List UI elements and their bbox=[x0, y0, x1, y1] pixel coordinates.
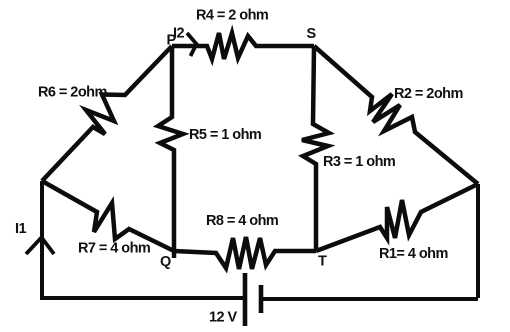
svg-text:I1: I1 bbox=[15, 221, 26, 237]
svg-text:T: T bbox=[318, 254, 327, 270]
svg-text:Q: Q bbox=[160, 254, 171, 270]
svg-text:R3 = 1 ohm: R3 = 1 ohm bbox=[323, 154, 395, 170]
svg-text:R5 = 1 ohm: R5 = 1 ohm bbox=[189, 127, 261, 143]
svg-text:R4 = 2 ohm: R4 = 2 ohm bbox=[196, 8, 268, 24]
svg-text:R2 = 2ohm: R2 = 2ohm bbox=[394, 86, 463, 102]
svg-text:R7 = 4 ohm: R7 = 4 ohm bbox=[78, 241, 150, 257]
svg-text:I2: I2 bbox=[173, 26, 184, 42]
svg-text:12 V: 12 V bbox=[209, 310, 238, 326]
svg-text:R8 = 4 ohm: R8 = 4 ohm bbox=[206, 213, 278, 229]
svg-text:S: S bbox=[307, 26, 317, 42]
svg-text:R6 = 2ohm: R6 = 2ohm bbox=[38, 85, 107, 101]
svg-text:R1= 4 ohm: R1= 4 ohm bbox=[379, 246, 448, 262]
